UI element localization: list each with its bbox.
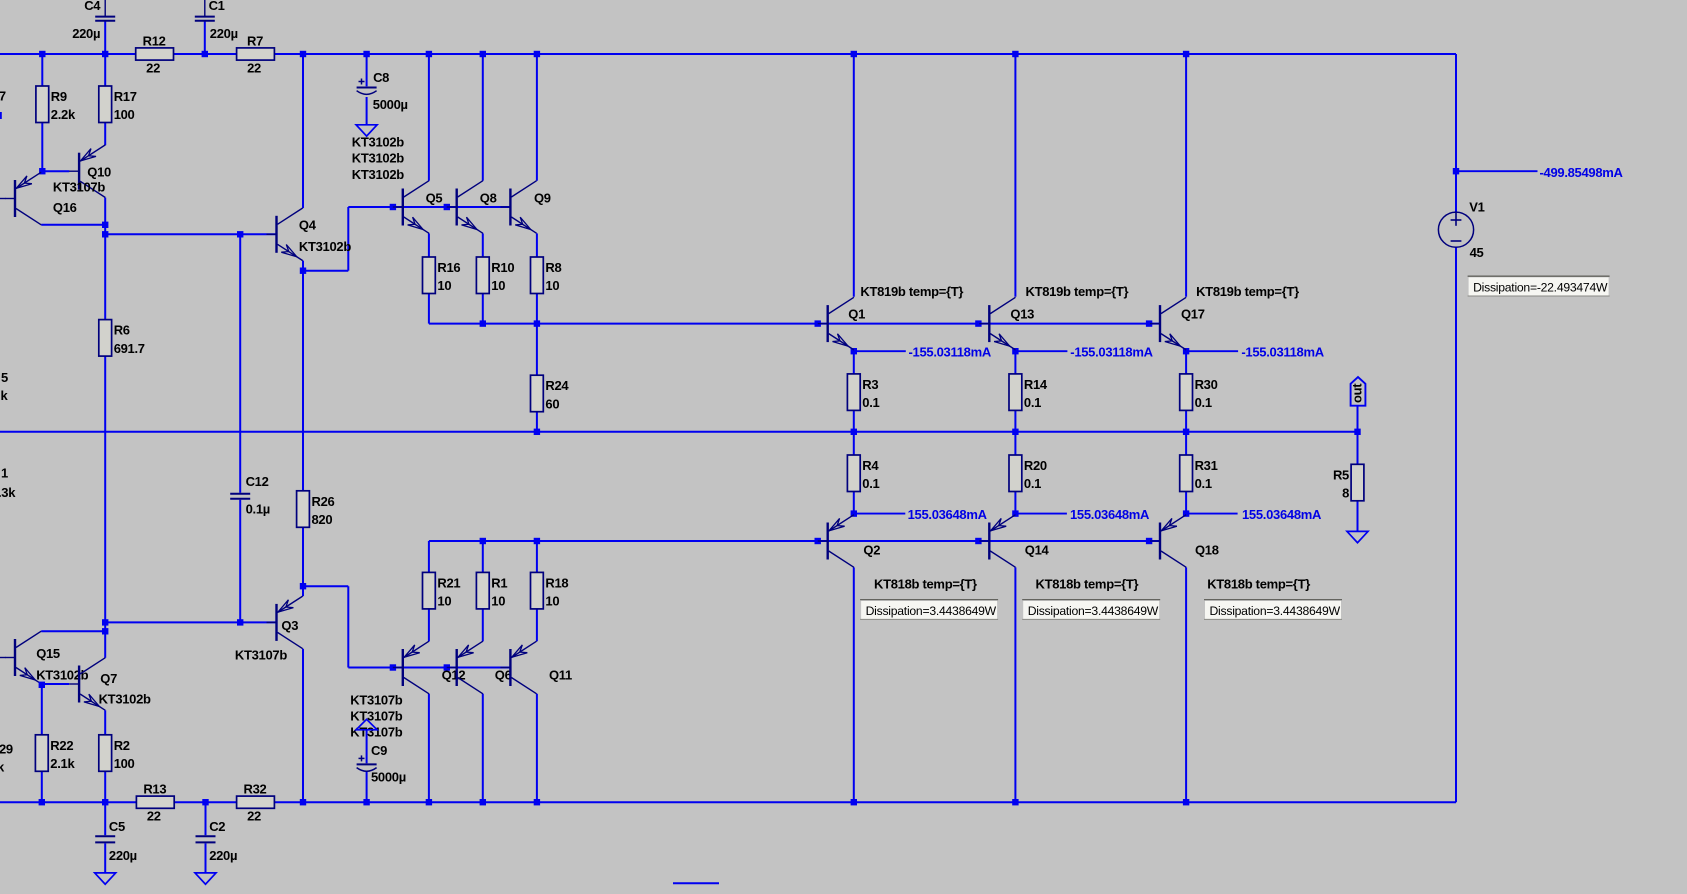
transistor Q6 [447,641,512,694]
node R2 at -V [102,799,108,805]
wire Q3 emitter run [303,585,348,587]
svg-text:155.03648mA: 155.03648mA [1242,507,1322,522]
wire emitter to R [853,351,855,374]
wire collector riser [428,54,430,181]
wire Q16 base from edge [0,198,6,200]
svg-text:Q9: Q9 [534,190,551,205]
node power collector at +V [851,51,857,57]
node R9 at +V rail [39,51,45,57]
wire out flag lead [1357,406,1359,432]
node emitter current probe lower [1183,510,1189,516]
svg-text:R14: R14 [1024,377,1048,392]
wire C9 ground link [366,730,368,764]
label KT3102b x3 [352,135,404,182]
svg-text:R22: R22 [50,738,73,753]
wire output rail to R [1185,432,1187,455]
svg-text:29: 29 [0,742,13,757]
node Q18 base [1146,538,1152,544]
wire dropper to lower trio base [347,586,349,667]
wire emitter resistor bottom [536,294,538,324]
node emitter resistor top [480,538,486,544]
wire node pair link [104,225,106,235]
svg-text:R3: R3 [862,377,878,392]
svg-text:100: 100 [114,107,135,122]
node power collector at +V [1012,51,1018,57]
svg-text:22: 22 [247,60,261,75]
wire upper trio base rail [348,206,510,208]
svg-text:KT3102b: KT3102b [352,135,404,150]
wire current leader [1015,350,1067,352]
svg-text:691.7: 691.7 [114,341,145,356]
wire C1 to +V rail [204,21,206,54]
resistor R17 [99,86,137,123]
transistor Q7 [69,658,151,711]
svg-text:KT3102b: KT3102b [99,692,151,707]
wire V1 current leader [1456,170,1538,172]
wire Q4 collector [302,54,304,208]
wire emitter to R [1185,351,1187,374]
label KT3107b x3 [350,692,402,739]
wire emitter lead [536,233,538,257]
svg-text:C9: C9 [371,743,387,758]
node emitter current probe [1012,348,1018,354]
svg-text:5000µ: 5000µ [373,97,408,112]
capacitor C12 [230,474,270,517]
svg-text:-499.85498mA: -499.85498mA [1540,165,1624,180]
wire R6 bottom drop [104,356,106,622]
wire C1 top lead [204,0,206,16]
resistor R18 [531,572,569,609]
node R24 at output rail [534,429,540,435]
wire current leader [854,350,906,352]
svg-text:R31: R31 [1195,458,1218,473]
label fragment k2 [0,760,5,775]
transistor Q15 [5,631,89,684]
svg-text:V1: V1 [1469,200,1484,215]
capacitor C8 [357,70,408,112]
svg-text:10: 10 [545,278,559,293]
node collector at +V rail [426,51,432,57]
svg-text:Dissipation=3.4438649W: Dissipation=3.4438649W [866,604,997,618]
svg-text:45: 45 [1470,245,1484,260]
node Q12 base [390,664,396,670]
wire power collector drop [853,567,855,802]
svg-text:Dissipation=3.4438649W: Dissipation=3.4438649W [1028,604,1159,618]
dissipation box Q2 [860,600,998,620]
svg-text:0.1: 0.1 [1024,476,1041,491]
wire C12 top lead [239,234,241,492]
wire lower trio base rail [348,667,510,669]
wire power collector riser [1014,54,1016,297]
node collector at -V rail [534,799,540,805]
wire Q15 collector run [41,630,105,632]
svg-text:27: 27 [0,89,6,104]
current label Q14 emitter [1070,507,1150,522]
svg-text:R6: R6 [114,323,130,338]
capacitor C5 [95,802,137,873]
wire V1 to bottom rail [1455,247,1457,802]
svg-text:10: 10 [491,594,505,609]
wire C8 to ground [366,97,368,125]
wire emitter lead [428,233,430,257]
svg-text:KT3107b: KT3107b [53,180,105,195]
svg-text:220µ: 220µ [109,848,137,863]
wire emitter lead lower [482,609,484,641]
svg-text:-155.03118mA: -155.03118mA [1070,345,1153,360]
capacitor C4 [72,0,115,41]
svg-text:KT818b temp={T}: KT818b temp={T} [1207,577,1310,592]
wire R6 top drop [104,234,106,319]
transistor Q13 KT819b [979,284,1128,350]
capacitor C1 [195,0,238,41]
svg-text:-155.03118mA: -155.03118mA [909,345,992,360]
svg-text:KT819b temp={T}: KT819b temp={T} [1196,284,1299,299]
svg-text:22: 22 [147,809,161,824]
node Q4 base net [102,231,108,237]
ground above C9 [356,719,377,730]
svg-text:R24: R24 [545,378,569,393]
svg-text:KT3107b: KT3107b [350,692,402,707]
transistor Q5 [393,181,443,234]
node Q13 base [975,320,981,326]
svg-text:KT3102b: KT3102b [299,239,351,254]
node Q2 base [815,538,821,544]
wire collector riser [536,54,538,181]
svg-text:R12: R12 [143,33,166,48]
wire collector drop [536,694,538,802]
svg-text:5: 5 [1,370,8,385]
wire emitter resistor top lead [536,541,538,572]
wire Q15 base from edge [0,657,6,659]
svg-text:Q11: Q11 [549,668,572,683]
svg-text:R9: R9 [51,89,67,104]
wire output rail to R [853,432,855,455]
svg-text:Q13: Q13 [1010,306,1034,321]
wire R bottom to output rail [853,410,855,431]
current label Q17 emitter [1241,345,1324,360]
svg-text:KT818b temp={T}: KT818b temp={T} [874,577,977,592]
node emitter current probe lower [851,510,857,516]
node Q8 base [444,204,450,210]
label fragment R27 [0,89,6,104]
resistor R26 [297,491,335,528]
svg-text:R16: R16 [437,260,460,275]
node Q15 collector [102,628,108,634]
transistor Q9 [500,181,550,234]
svg-text:220µ: 220µ [72,26,100,41]
wire collector drop [428,694,430,802]
dissipation box V1 [1468,276,1610,296]
svg-text:KT3102b: KT3102b [36,668,88,683]
transistor Q4 KT3102b [267,208,352,261]
wire R22 top [41,685,43,735]
wire R to emitter probe [1014,492,1016,514]
label fragment 29 [0,742,13,757]
node C9 at -V rail [363,799,369,805]
node Q4 collector [300,51,306,57]
ground under C5 [95,873,116,884]
wire R2 bottom [104,771,106,802]
svg-text:Q4: Q4 [299,218,317,233]
wire R5 bottom [1357,501,1359,532]
resistor R1 [476,572,507,609]
svg-text:-155.03118mA: -155.03118mA [1241,345,1324,360]
wire R to emitter probe [853,492,855,514]
wire left edge fragment [0,112,2,119]
wire emitter to R [1014,351,1016,374]
dissipation box Q14 [1022,600,1160,620]
out flag [1350,377,1366,406]
resistor R2 [99,735,135,772]
node Q4 emitter [300,268,306,274]
svg-text:R4: R4 [862,458,879,473]
wire emitter resistor top lead [482,541,484,572]
svg-text:R30: R30 [1195,377,1218,392]
resistor R30 [1180,374,1218,411]
resistor R12 [136,33,174,75]
transistor Q18 KT818b [1150,515,1310,592]
wire Q3 emitter stub [302,586,304,596]
transistor Q14 KT818b [979,515,1138,592]
node C1 [202,51,208,57]
svg-text:R26: R26 [312,494,335,509]
resistor R32 [237,782,275,824]
svg-text:820: 820 [312,512,333,527]
wire R26 top drop [302,271,304,492]
wire Q4 emitter stub [302,261,304,271]
wire Q7 emitter lead [104,710,106,735]
node C12 top [237,231,243,237]
node Q14 base [975,538,981,544]
node C2 at -V [202,799,208,805]
wire R17 bottom [104,123,106,146]
wire output rail to R [1014,432,1016,455]
ground under C8 [356,125,377,136]
wire right +V drop to V1 [1455,54,1457,212]
node R9-Q16-Q10 [39,168,45,174]
node R at output rail [1183,429,1189,435]
svg-text:Q6: Q6 [495,668,512,683]
svg-text:10: 10 [545,594,559,609]
wire R5 top [1357,432,1359,465]
svg-text:KT3107b: KT3107b [235,648,287,663]
svg-text:Q14: Q14 [1025,543,1050,558]
svg-text:R21: R21 [437,575,460,590]
svg-text:Q7: Q7 [100,671,117,686]
wire emitter lead lower [536,609,538,641]
label fragment k [1,388,9,403]
wire current leader [1186,350,1238,352]
wire R22 bottom [41,771,43,802]
wire emitter resistor bottom [482,294,484,324]
svg-text:0.1µ: 0.1µ [246,502,270,517]
ground under C2 [195,873,216,884]
node emitter current probe [851,348,857,354]
transistor Q8 [447,181,497,234]
svg-text:Q8: Q8 [480,190,497,205]
wire power collector drop [1014,567,1016,802]
voltage source V1 [1438,212,1473,247]
node Q1 base [815,320,821,326]
svg-text:R7: R7 [247,33,263,48]
svg-text:Q16: Q16 [53,200,77,215]
resistor R9 [36,86,76,123]
svg-text:22: 22 [247,809,261,824]
transistor Q3 KT3107b [235,596,303,662]
node power collector at -V [1012,799,1018,805]
ground under R5 [1347,531,1368,542]
svg-text:.3k: .3k [0,485,16,500]
svg-text:k: k [1,388,9,403]
node collector at -V rail [480,799,486,805]
wire emitter lead [482,233,484,257]
current label Q18 emitter [1242,507,1322,522]
svg-text:100: 100 [114,756,135,771]
wire current leader lower [854,513,906,515]
wire Q10 base [42,170,69,172]
wire node pair link lower [104,622,106,631]
node R at output rail [851,429,857,435]
svg-text:Dissipation=3.4438649W: Dissipation=3.4438649W [1210,604,1341,618]
svg-text:0.1: 0.1 [1195,395,1212,410]
resistor R10 [476,257,514,294]
capacitor C9 [357,743,406,785]
current label Q1 emitter [909,345,992,360]
dissipation box Q18 [1204,600,1342,620]
wire upper emitter bus [429,323,1160,325]
transistor Q11 [500,641,572,694]
resistor R8 [531,257,562,294]
wire R9 bottom to node [41,123,43,172]
svg-text:R1: R1 [491,575,507,590]
svg-text:Q5: Q5 [426,190,443,205]
wire R24 top [536,324,538,376]
resistor R13 [136,782,174,824]
svg-text:KT819b temp={T}: KT819b temp={T} [860,284,963,299]
wire R17 top [104,54,106,86]
node power collector at -V [851,799,857,805]
node Q3 base net upper [102,619,108,625]
node output [1354,429,1360,435]
svg-text:KT819b temp={T}: KT819b temp={T} [1026,284,1129,299]
svg-text:C5: C5 [109,819,125,834]
current label Q2 emitter [908,507,988,522]
node R10 bottom [480,320,486,326]
label V1 value [1470,245,1484,260]
label V1 [1469,200,1484,215]
transistor Q16 [5,172,77,225]
wire Q3 collector drop [302,649,304,802]
resistor R31 [1180,455,1218,492]
node V1 current probe [1453,168,1459,174]
resistor R20 [1009,455,1047,492]
svg-text:R32: R32 [244,782,267,797]
wire bottom -V rail [0,801,1456,803]
resistor R16 [423,257,461,294]
node power collector at +V [1183,51,1189,57]
svg-text:22: 22 [146,60,160,75]
current label V1 [1540,165,1624,180]
wire power collector riser [853,54,855,297]
transistor Q1 KT819b [818,284,964,350]
svg-text:220µ: 220µ [209,848,237,863]
node Q17 base [1146,320,1152,326]
svg-text:2.1k: 2.1k [50,756,75,771]
svg-text:C12: C12 [246,474,269,489]
node collector at +V rail [534,51,540,57]
resistor R24 [531,375,570,412]
wire collector riser [482,54,484,181]
resistor R5 [1333,464,1364,501]
svg-text:R20: R20 [1024,458,1047,473]
resistor R6 [99,320,145,357]
svg-text:R17: R17 [114,89,137,104]
wire current leader lower [1186,513,1238,515]
node emitter current probe [1183,348,1189,354]
transistor Q10 KT3107b [53,145,111,198]
svg-text:2.2k: 2.2k [51,107,76,122]
resistor R21 [423,572,461,609]
node Q3 emitter [300,583,306,589]
wire R24 bottom [536,412,538,432]
svg-text:10: 10 [437,278,451,293]
svg-text:220µ: 220µ [210,26,238,41]
svg-text:0.1: 0.1 [1195,476,1212,491]
svg-text:R2: R2 [114,738,130,753]
wire mid output rail [0,431,1358,433]
svg-text:R13: R13 [143,782,166,797]
svg-text:60: 60 [545,396,559,411]
wire lower base bus [429,540,1160,542]
svg-text:R8: R8 [545,260,561,275]
wire emitter resistor bottom [428,294,430,324]
resistor R3 [847,374,879,411]
wire power collector riser [1185,54,1187,297]
svg-text:C1: C1 [209,0,225,13]
wire R9 top [41,54,43,86]
transistor Q17 KT819b [1150,284,1299,350]
node Q16 collector [102,222,108,228]
node C8 [363,51,369,57]
wire Q16 collector run [41,224,105,226]
svg-text:Q3: Q3 [281,618,298,633]
svg-text:0.1: 0.1 [1024,395,1041,410]
node R8/R24 [534,320,540,326]
node emitter resistor top [534,538,540,544]
resistor R22 [35,735,75,772]
svg-text:5000µ: 5000µ [371,770,406,785]
svg-text:KT3107b: KT3107b [350,708,402,723]
svg-text:KT3102b: KT3102b [352,151,404,166]
node Q5 base [390,204,396,210]
svg-text:1: 1 [1,466,8,481]
node emitter current probe lower [1012,510,1018,516]
svg-text:8: 8 [1342,486,1349,501]
svg-text:10: 10 [491,278,505,293]
svg-text:C2: C2 [209,819,225,834]
svg-text:Dissipation=-22.493474W: Dissipation=-22.493474W [1473,281,1608,295]
svg-text:R10: R10 [491,260,514,275]
svg-text:0.1: 0.1 [862,476,879,491]
wire current leader lower [1015,513,1067,515]
node C4/R17 [102,51,108,57]
svg-text:155.03648mA: 155.03648mA [908,507,988,522]
svg-text:KT818b temp={T}: KT818b temp={T} [1036,577,1139,592]
svg-text:C4: C4 [84,0,101,13]
resistor R7 [237,33,275,75]
wire C9 bottom lead [366,771,368,802]
wire C4 top lead [104,0,106,16]
